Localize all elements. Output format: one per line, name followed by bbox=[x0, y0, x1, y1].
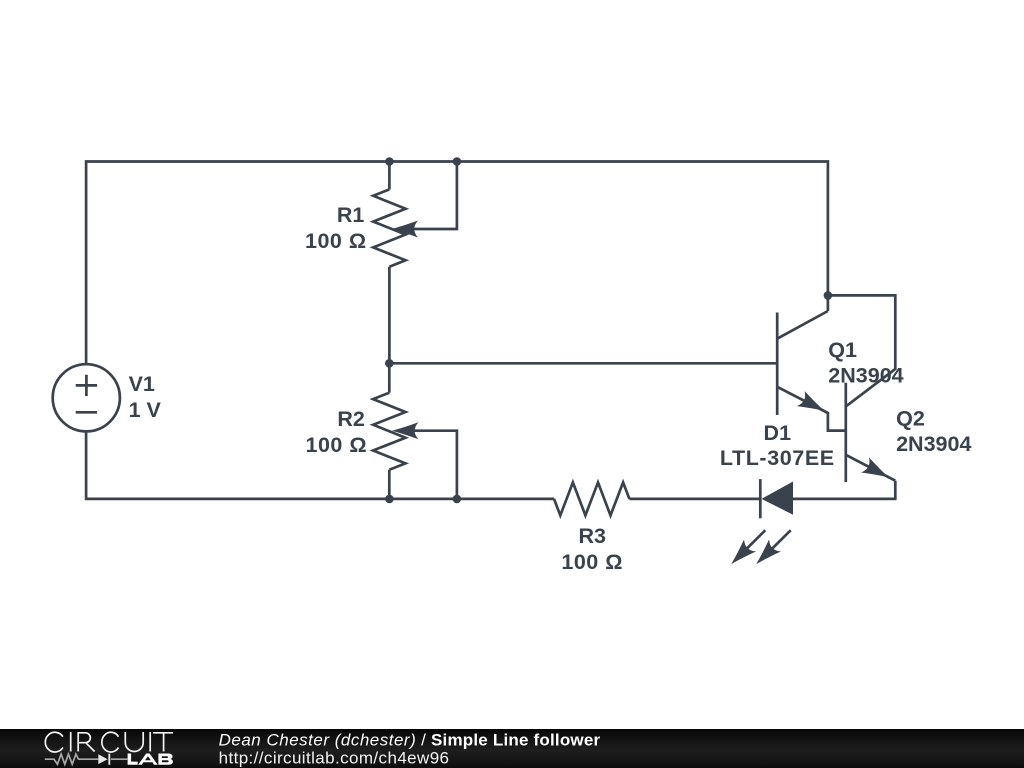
svg-text:100 Ω: 100 Ω bbox=[305, 229, 367, 253]
svg-text:D1: D1 bbox=[764, 421, 792, 445]
svg-text:R1: R1 bbox=[337, 203, 365, 227]
svg-text:Dean Chester (dchester) / Simp: Dean Chester (dchester) / Simple Line fo… bbox=[219, 730, 601, 749]
svg-text:2N3904: 2N3904 bbox=[896, 432, 971, 456]
svg-text:100 Ω: 100 Ω bbox=[306, 433, 368, 457]
svg-text:1 V: 1 V bbox=[129, 398, 162, 422]
svg-text:V1: V1 bbox=[129, 372, 155, 396]
svg-text:2N3904: 2N3904 bbox=[828, 364, 903, 388]
svg-text:LTL-307EE: LTL-307EE bbox=[720, 446, 835, 470]
svg-text:Q1: Q1 bbox=[828, 338, 857, 362]
svg-text:R2: R2 bbox=[337, 407, 365, 431]
svg-text:R3: R3 bbox=[578, 524, 606, 548]
svg-text:100 Ω: 100 Ω bbox=[561, 550, 623, 574]
svg-text:http://circuitlab.com/ch4ew96: http://circuitlab.com/ch4ew96 bbox=[219, 748, 450, 767]
svg-text:Q2: Q2 bbox=[896, 407, 925, 431]
